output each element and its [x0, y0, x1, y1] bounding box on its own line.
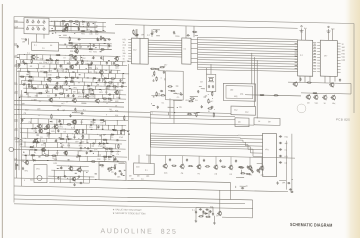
- svg-text:C16: C16: [58, 121, 61, 123]
- wire stub: [27, 128, 29, 133]
- wire stub: [66, 134, 68, 139]
- capacitor C81: [201, 105, 203, 108]
- ground GND1: [276, 181, 279, 184]
- pin U4 right 6: [337, 57, 340, 59]
- wire bus rail y186: [14, 186, 288, 192]
- transistor Q26: [71, 176, 76, 181]
- wire line-out rail 3: [14, 110, 150, 113]
- wire: [279, 179, 286, 181]
- resistor R17: [87, 64, 92, 65]
- svg-text:C12: C12: [25, 110, 28, 112]
- resistor R5: [61, 30, 66, 31]
- svg-text:2.2: 2.2: [71, 127, 74, 129]
- pin U4 left 9: [317, 65, 320, 67]
- capacitor C42: [73, 94, 75, 97]
- wire stub: [48, 69, 50, 72]
- svg-text:VR1: VR1: [249, 174, 253, 176]
- node N113: [61, 146, 64, 149]
- capacitor C-U5-5: [279, 161, 282, 163]
- svg-text:C4: C4: [195, 100, 197, 102]
- wire gap rail: [59, 38, 110, 39]
- wire fan to U5 pin 4: [246, 145, 263, 147]
- wire topleft connections: [14, 27, 24, 29]
- svg-text:C12: C12: [98, 155, 101, 157]
- page right edge warm band: [343, 0, 360, 238]
- capacitor C-T6: [209, 210, 211, 213]
- resistor R37: [83, 89, 84, 94]
- wire left terminal y139: [14, 138, 18, 140]
- diode D1: [82, 21, 86, 23]
- wire: [135, 29, 137, 34]
- power node P2: [327, 26, 331, 33]
- wire stub: [79, 22, 81, 27]
- wire stub: [48, 129, 50, 134]
- resistor R15: [31, 58, 32, 63]
- capacitor C-T3: [205, 209, 208, 211]
- node N52: [27, 91, 30, 94]
- node N125: [24, 154, 27, 157]
- resistor R60: [31, 155, 36, 156]
- svg-text:Q5: Q5: [216, 215, 219, 217]
- resistor R49: [46, 133, 51, 134]
- pin U4 right 7: [337, 60, 340, 62]
- capacitor C37: [46, 85, 48, 88]
- diode D16: [98, 143, 102, 145]
- svg-text:100: 100: [75, 141, 78, 143]
- wire stub: [79, 65, 81, 70]
- capacitor C34: [121, 82, 124, 84]
- node N66: [23, 79, 26, 82]
- svg-text:C16: C16: [119, 137, 122, 139]
- node N128: [23, 179, 26, 182]
- capacitor C17: [81, 60, 84, 62]
- transistor Q-BR3: [196, 164, 201, 169]
- wire stub: [75, 73, 77, 78]
- capacitor C48: [59, 119, 61, 122]
- wire stub: [27, 93, 29, 97]
- pin U4 right 9: [337, 65, 340, 67]
- capacitor C83: [160, 90, 163, 92]
- capacitor C73: [151, 33, 154, 35]
- wire left terminal y22: [14, 21, 18, 23]
- node N141: [207, 93, 210, 96]
- capacitor C44: [81, 112, 84, 114]
- resistor R21: [28, 76, 33, 77]
- node N118: [97, 150, 100, 153]
- resistor R2: [68, 21, 73, 22]
- transistor Q-RB1: [306, 94, 311, 100]
- IC U4 (melody): [320, 40, 337, 76]
- node N77: [56, 108, 59, 111]
- svg-text:C4: C4: [115, 92, 117, 94]
- wire stub: [32, 155, 34, 160]
- wire band line 2: [151, 136, 241, 138]
- resistor R84: [188, 100, 193, 101]
- wire bus2 line 1: [198, 37, 298, 39]
- node N36: [32, 75, 35, 78]
- wire row2 rail: [59, 48, 112, 49]
- capacitor C41: [67, 94, 69, 97]
- wire crystal feeds: [210, 64, 212, 74]
- svg-text:C12: C12: [95, 34, 98, 36]
- wire stub: [68, 61, 70, 65]
- capacitor C25: [65, 68, 68, 70]
- wire stub: [81, 120, 83, 125]
- wire U2 to bus2 stubs: [191, 48, 198, 50]
- wire below-frame cluster: [202, 210, 204, 216]
- wire feeds above U2: [185, 26, 187, 38]
- wire stub: [83, 177, 85, 183]
- wire stub: [48, 150, 50, 155]
- capacitor C74: [155, 30, 157, 33]
- node N39: [71, 76, 74, 79]
- connector box J3: [235, 118, 249, 127]
- node N59: [64, 54, 67, 57]
- node N96: [45, 137, 48, 140]
- wire stub: [112, 83, 114, 87]
- resistor R3: [74, 21, 79, 22]
- svg-text:R1: R1: [198, 173, 200, 175]
- wire bus2 line 10: [198, 60, 298, 62]
- wire stub: [32, 124, 34, 129]
- capacitor C4: [108, 44, 110, 47]
- pin U1 left 2: [128, 41, 131, 43]
- wire riser x252: [252, 200, 254, 218]
- wire rail: [15, 142, 122, 144]
- wire stub: [88, 177, 90, 183]
- node N90: [48, 127, 51, 130]
- wire stub: [26, 64, 28, 69]
- node N111: [61, 141, 64, 144]
- node N56: [94, 93, 97, 96]
- wire stub: [37, 72, 39, 77]
- svg-text:VR1: VR1: [36, 168, 40, 170]
- resistor R51: [120, 130, 121, 135]
- line jack circle J1: [9, 147, 13, 151]
- resistor R71: [192, 31, 197, 32]
- wire Q-BR7 feed: [261, 157, 263, 166]
- wire stub: [81, 78, 83, 82]
- svg-text:0.1: 0.1: [27, 53, 30, 55]
- wire stub: [102, 78, 104, 82]
- diode D22: [32, 159, 36, 161]
- svg-text:R9: R9: [64, 153, 66, 155]
- wire: [173, 92, 177, 94]
- wire left terminal y84: [14, 83, 18, 85]
- wire stub: [95, 65, 97, 70]
- svg-text:0.1: 0.1: [177, 97, 180, 99]
- diode D8: [104, 77, 108, 79]
- pin U1 left 6: [128, 52, 131, 54]
- node N126: [40, 154, 43, 157]
- node N49: [62, 88, 65, 91]
- wire: [158, 70, 165, 72]
- resistor R40: [107, 98, 112, 99]
- diode D7: [93, 77, 97, 79]
- capacitor C-RA2: [339, 79, 341, 82]
- wire stub: [83, 82, 85, 86]
- diode D6: [64, 77, 68, 79]
- node N138: [151, 112, 154, 115]
- capacitor C93: [219, 159, 221, 162]
- wire U3 U4 bottoms to row A: [299, 76, 301, 82]
- svg-text:R22: R22: [234, 96, 237, 98]
- resistor R45: [75, 119, 76, 124]
- diode D19: [89, 150, 93, 152]
- wire stub: [74, 134, 76, 139]
- capacitor C72: [135, 34, 138, 36]
- transistor Q-RB3: [322, 95, 327, 101]
- resistor R63: [103, 156, 108, 157]
- wire stub: [86, 129, 88, 134]
- bell box: [99, 161, 126, 180]
- wire box to band: [169, 100, 171, 119]
- transistor Q-RA1: [293, 81, 298, 87]
- node N60: [82, 54, 85, 57]
- wire from J1: [13, 148, 34, 150]
- resistor R36: [59, 93, 64, 94]
- svg-text:R31: R31: [93, 51, 96, 53]
- diode D-T1: [204, 213, 208, 215]
- wire bus1 line 6: [148, 51, 181, 54]
- resistor R27: [108, 82, 113, 83]
- wire stub: [100, 134, 102, 139]
- node N24: [101, 64, 104, 67]
- capacitor C79: [163, 71, 165, 74]
- svg-text:4K7: 4K7: [41, 141, 44, 143]
- pin U4 right 11: [337, 71, 340, 73]
- wire stub: [98, 44, 100, 50]
- display inner box: [226, 86, 253, 99]
- wire stub: [55, 129, 57, 134]
- wire feed to below-frame cluster: [219, 190, 221, 212]
- svg-text:4K7: 4K7: [56, 153, 59, 155]
- node N5: [70, 29, 73, 32]
- node N86: [101, 124, 104, 127]
- node N2: [59, 20, 62, 23]
- node N18: [63, 59, 66, 62]
- resistor R98: [238, 166, 243, 167]
- svg-text:Q5: Q5: [205, 96, 208, 98]
- capacitor C54: [116, 139, 119, 141]
- dial/amp block box U-A: [24, 18, 49, 35]
- node N109: [96, 133, 99, 136]
- node N28: [93, 68, 96, 71]
- transistor Q8: [99, 70, 104, 75]
- svg-text:2.2: 2.2: [300, 55, 303, 57]
- wire stub: [20, 128, 22, 133]
- node N107: [64, 128, 67, 131]
- capacitor C-T2: [199, 208, 202, 210]
- wire: [168, 112, 170, 115]
- node N94: [60, 132, 63, 135]
- node N131: [53, 169, 56, 172]
- svg-text:R1: R1: [39, 131, 41, 133]
- resistor R16: [82, 59, 83, 64]
- wire: [63, 34, 67, 36]
- capacitor C12: [103, 39, 106, 41]
- pin U3 right 7: [313, 59, 317, 61]
- wire riser x230: [230, 182, 232, 199]
- capacitor C-T4: [212, 212, 214, 215]
- wire rail: [48, 175, 94, 178]
- node N121: [55, 154, 58, 157]
- node N105: [30, 117, 33, 120]
- wire rail: [17, 63, 127, 65]
- frame left border: [13, 17, 15, 203]
- wire rail: [53, 25, 97, 28]
- pin labels U3 left: [295, 42, 297, 45]
- svg-text:C4: C4: [123, 56, 125, 58]
- box under U1: [166, 71, 184, 100]
- transistor Q-H2: [77, 167, 82, 172]
- node N70: [100, 88, 103, 91]
- wire left terminal y57: [14, 56, 18, 58]
- svg-text:220: 220: [89, 127, 92, 129]
- diode D12: [111, 134, 115, 136]
- capacitor C85: [287, 182, 290, 184]
- svg-text:100: 100: [342, 50, 345, 52]
- capacitor C70: [114, 172, 116, 175]
- transistor Q11: [114, 90, 119, 95]
- resistor R18: [114, 65, 119, 66]
- wire left nested verticals: [16, 60, 18, 178]
- node N50: [70, 88, 73, 91]
- capacitor C65: [64, 175, 67, 177]
- capacitor C55: [79, 142, 82, 144]
- wire topleft connections: [14, 21, 24, 23]
- svg-text:D3: D3: [54, 141, 56, 143]
- resistor R6: [80, 30, 85, 31]
- wire U3 U4 bottoms to row A: [309, 76, 311, 81]
- wire stub: [17, 63, 19, 68]
- wire stub: [83, 94, 85, 98]
- trimmer pot VR1: [26, 19, 28, 23]
- capacitor C64: [57, 176, 59, 179]
- node N29: [100, 68, 103, 71]
- pin U3 right 8: [313, 62, 317, 64]
- svg-text:R22: R22: [342, 60, 345, 62]
- wire: [110, 169, 112, 171]
- svg-text:Q5: Q5: [238, 122, 241, 124]
- svg-text:R31: R31: [99, 92, 102, 94]
- diode D11: [59, 123, 63, 125]
- svg-text:R22: R22: [53, 163, 56, 165]
- wire stub: [122, 62, 124, 66]
- node N136: [163, 65, 166, 68]
- wire band drop 1: [237, 134, 239, 137]
- resistor R61: [44, 155, 49, 156]
- wire stub: [62, 69, 64, 72]
- pin U4 left 8: [317, 62, 320, 64]
- wire vertical x128: [127, 64, 129, 161]
- svg-text:R31: R31: [342, 53, 345, 55]
- transistor Q-BR7: [259, 165, 264, 170]
- wire stub: [86, 156, 88, 161]
- wire stub: [61, 85, 63, 89]
- svg-text:100: 100: [81, 96, 84, 98]
- transistor Q4: [31, 54, 36, 59]
- svg-text:R9: R9: [30, 66, 32, 68]
- transistor Q16: [71, 119, 76, 124]
- wire stub: [84, 73, 86, 78]
- wire U3 U4 bottoms to row A: [304, 76, 306, 82]
- wire: [53, 105, 62, 107]
- capacitor C30: [119, 79, 121, 82]
- node N30: [110, 69, 113, 72]
- wire left terminal y93: [14, 92, 18, 94]
- wire band drop 2: [240, 137, 242, 140]
- wire band y120: [150, 123, 254, 125]
- node N79: [20, 117, 23, 120]
- wire bus2 drops: [254, 57, 256, 107]
- node N10: [70, 47, 73, 50]
- wire bus2 line 9: [198, 57, 298, 59]
- wire stub: [80, 166, 82, 171]
- wire stub: [33, 138, 35, 142]
- wire stub: [31, 55, 33, 60]
- resistor R22: [55, 77, 60, 78]
- resistor R39: [102, 98, 107, 99]
- wire amp row stub: [78, 22, 80, 31]
- pin U4 left 10: [317, 68, 320, 70]
- wire rail: [57, 165, 89, 168]
- wire: [257, 162, 262, 164]
- wire stub: [52, 89, 54, 94]
- wire stub: [108, 125, 110, 130]
- wire stub: [107, 44, 109, 50]
- wire stub: [110, 70, 112, 73]
- wire Q-BR1 feed: [164, 155, 166, 164]
- svg-text:C12: C12: [31, 100, 34, 102]
- resistor R75: [154, 71, 155, 76]
- pin U3 right 1: [313, 42, 317, 44]
- diode D5: [23, 63, 27, 65]
- node N76: [106, 102, 109, 105]
- resistor R-RA1: [307, 82, 312, 83]
- wire stub: [121, 126, 123, 131]
- wire rail: [17, 72, 129, 74]
- wire stub: [117, 130, 119, 135]
- svg-text:R1: R1: [50, 45, 52, 47]
- transistor Q1: [63, 26, 68, 31]
- wire top supply rail: [115, 24, 298, 28]
- pin U4 left 1: [317, 42, 320, 44]
- node N72: [54, 96, 57, 99]
- wire below-frame cluster: [213, 216, 215, 222]
- wire stub: [63, 82, 65, 86]
- svg-text:4K7: 4K7: [285, 143, 288, 145]
- wire stub: [63, 61, 65, 65]
- wire left terminal y121: [14, 120, 18, 122]
- wire: [176, 85, 179, 87]
- svg-text:C8: C8: [214, 174, 216, 176]
- svg-text:2.2: 2.2: [147, 35, 150, 37]
- wire band drop 5: [247, 145, 249, 150]
- resistor R58: [118, 144, 119, 149]
- wire stub: [40, 81, 42, 85]
- pin labels U3/U4 middle: [314, 43, 316, 46]
- svg-text:0.1: 0.1: [145, 170, 148, 172]
- wire stub: [30, 119, 32, 124]
- svg-text:PCB 825: PCB 825: [336, 117, 350, 121]
- node N13: [36, 53, 39, 56]
- wire stub: [32, 77, 34, 81]
- wire amp row: [49, 26, 106, 27]
- resistor R29: [106, 86, 111, 87]
- diode D13: [67, 138, 71, 140]
- svg-text:220: 220: [70, 51, 73, 53]
